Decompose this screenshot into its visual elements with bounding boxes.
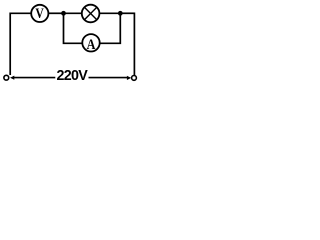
- wire right vertical: [133, 13, 135, 76]
- terminal right: [132, 76, 137, 81]
- lamp L1: [82, 5, 100, 23]
- dimension arrow left: [10, 76, 14, 80]
- svg-text:220V: 220V: [57, 68, 89, 84]
- terminal left: [4, 75, 9, 80]
- dimension arrow right: [127, 76, 131, 80]
- node A junction dot: [61, 11, 66, 16]
- wire node A to lamp: [64, 12, 83, 14]
- label 220V: [57, 68, 89, 84]
- wire left vertical: [9, 13, 11, 76]
- dimension line left segment: [14, 77, 56, 79]
- wire lamp to node B: [100, 12, 121, 14]
- wire V to node A: [49, 12, 64, 14]
- svg-text:A: A: [87, 37, 96, 53]
- svg-text:V: V: [35, 6, 44, 22]
- wire ammeter to node B riser: [100, 13, 121, 43]
- ammeter A1: [82, 34, 99, 53]
- dimension line right segment: [89, 77, 128, 79]
- wire node A down and to ammeter: [64, 13, 82, 43]
- node B junction dot: [118, 11, 123, 16]
- wire node B to top-right corner: [120, 12, 134, 14]
- wire top-left horizontal: [10, 12, 31, 14]
- voltmeter V1: [31, 5, 48, 22]
